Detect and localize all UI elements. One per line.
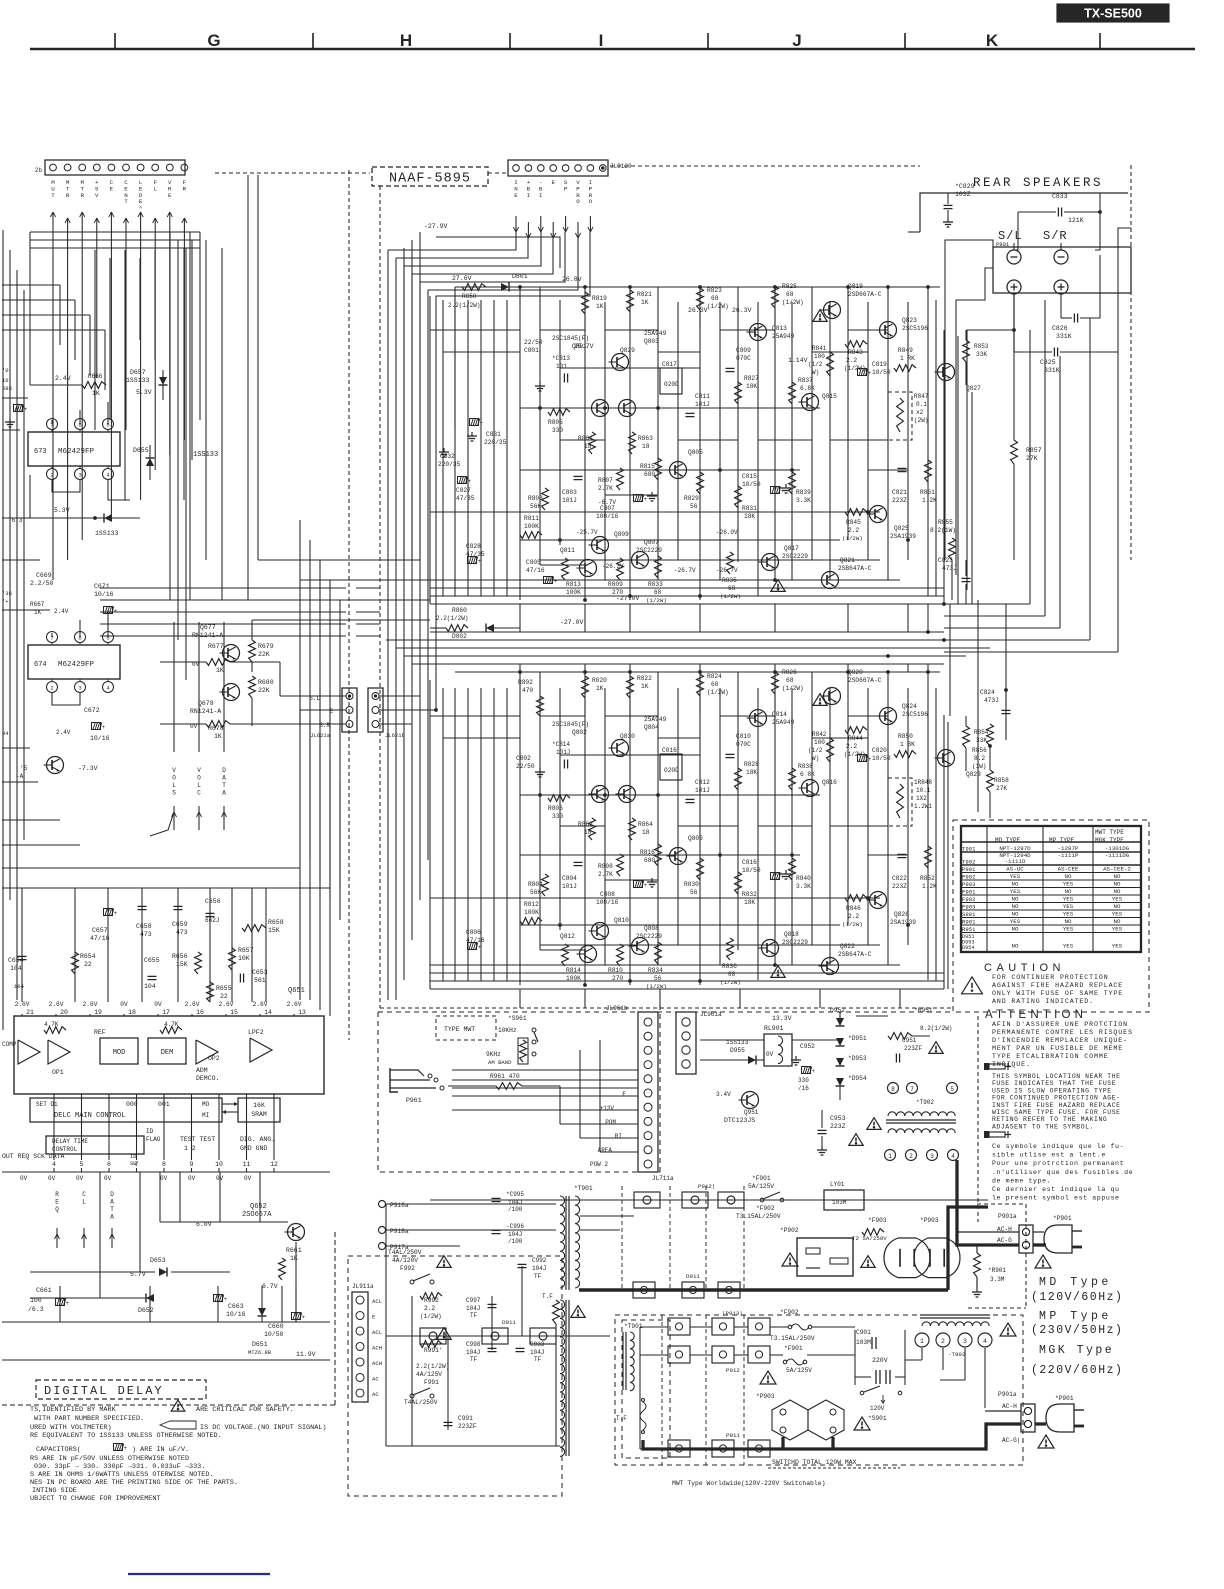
transistor Q820: [821, 669, 882, 705]
svg-text:YES: YES: [1010, 888, 1021, 895]
resistor R858: [987, 746, 1010, 818]
svg-text:Ce dernier est indique la qu: Ce dernier est indique la qu: [992, 1186, 1120, 1193]
svg-text:16K: 16K: [253, 1102, 265, 1109]
fuse box thick1: [633, 1282, 655, 1298]
svg-text:A: A: [110, 1199, 114, 1206]
svg-text:C653: C653: [252, 969, 268, 976]
svg-text:D952: D952: [830, 1007, 845, 1014]
capacitor C816: [742, 859, 791, 881]
wire: [927, 672, 929, 980]
svg-text:R830: R830: [684, 881, 699, 888]
wire: [584, 664, 586, 672]
svg-text:R992: R992: [424, 1297, 439, 1304]
svg-text:Q823: Q823: [902, 317, 917, 324]
label TEST TEST: [180, 1136, 215, 1152]
svg-text:AND RATING INDICATED.: AND RATING INDICATED.: [992, 998, 1094, 1005]
wire: [59, 1286, 61, 1322]
wire: [184, 232, 200, 500]
inductor L901: [824, 1181, 864, 1210]
wire: [21, 1014, 23, 1016]
wire: [757, 302, 759, 596]
wire: [830, 825, 888, 827]
svg-text:-1111P: -1111P: [1058, 852, 1079, 859]
wire: [429, 296, 431, 604]
label 2SC1845(F) Q801: [552, 335, 589, 350]
resistor R829: [684, 472, 703, 510]
svg-text:674: 674: [34, 661, 47, 669]
wire: [491, 1296, 493, 1350]
svg-text:-1111D: -1111D: [1005, 858, 1026, 865]
table row T902: [961, 852, 1141, 866]
wire bus: [430, 1199, 988, 1201]
resistor R843: [844, 341, 867, 372]
transistor Q804: [609, 716, 667, 757]
svg-text:YES: YES: [1063, 911, 1074, 918]
fuse D911c: [530, 1328, 556, 1344]
svg-text:2.6V: 2.6V: [219, 1001, 234, 1008]
wire: [2, 748, 38, 782]
wire: [829, 688, 831, 965]
svg-text:0V: 0V: [244, 1175, 252, 1182]
svg-text:ADM: ADM: [196, 1067, 208, 1074]
svg-text:2.7K: 2.7K: [598, 485, 613, 492]
svg-text:662J: 662J: [205, 917, 219, 924]
svg-text:10/16: 10/16: [94, 591, 114, 598]
svg-text:18: 18: [584, 443, 592, 450]
wire: [520, 854, 560, 856]
label edge: [2, 598, 9, 605]
attention text en: [992, 1087, 1112, 1094]
wire: [223, 622, 225, 752]
wire bus: [356, 587, 380, 589]
wire pin arrow: [109, 212, 114, 230]
label edge: [2, 367, 9, 374]
pin label ACL: [372, 1329, 382, 1336]
wire: [89, 1014, 91, 1016]
pin label E: [622, 1091, 626, 1098]
svg-text:94: 94: [2, 730, 9, 737]
pin label ACH: [372, 1345, 382, 1352]
wire bus: [2, 1171, 330, 1173]
board boundary dashed: [968, 1204, 1026, 1308]
svg-text:5.3V: 5.3V: [136, 389, 152, 396]
board boundary dashed: [610, 165, 920, 167]
resistor R820: [582, 676, 608, 698]
pin label +5V: [95, 179, 99, 199]
label T3.15AL/250V b: [770, 1335, 815, 1342]
svg-text:C672: C672: [84, 707, 100, 714]
resistor R838: [789, 763, 816, 790]
svg-text:R812: R812: [524, 901, 539, 908]
svg-text:R809: R809: [608, 581, 623, 588]
board boundary dashed: [348, 1256, 562, 1496]
wire: [540, 564, 585, 566]
svg-text:1 2: 1 2: [184, 1145, 196, 1152]
wire: [388, 232, 516, 250]
attention text en: [992, 1102, 1121, 1109]
wire: [209, 888, 211, 1002]
note text: [32, 1487, 77, 1495]
capacitor C995: [492, 1191, 525, 1213]
svg-text:AFIN D'ASSURER UNE PROTCTION: AFIN D'ASSURER UNE PROTCTION: [992, 1021, 1128, 1028]
svg-text:+: +: [644, 496, 648, 503]
wire pin arrow: [563, 216, 568, 232]
svg-text:10/50: 10/50: [742, 867, 761, 874]
junction: [846, 285, 849, 288]
svg-text:Q830: Q830: [620, 733, 635, 740]
junction: [790, 468, 793, 471]
svg-text:MWT Type Worldwide(120V-220V S: MWT Type Worldwide(120V-220V Switchable): [672, 1480, 825, 1487]
wire bus: [412, 663, 944, 665]
wire: [658, 351, 700, 353]
svg-text:A: A: [222, 775, 226, 782]
resistor R855: [930, 519, 956, 600]
resistor R816: [640, 844, 661, 866]
svg-text:NPT-1287D: NPT-1287D: [999, 845, 1031, 852]
svg-text:AS-UC: AS-UC: [1006, 866, 1024, 873]
attention text: [992, 1053, 1109, 1060]
opamp COMP: [18, 1040, 40, 1064]
resistor R844: [844, 727, 867, 758]
svg-text:C816: C816: [742, 859, 757, 866]
wire: [584, 672, 586, 985]
pin label RI: [615, 1133, 622, 1140]
plug P903c: [772, 1400, 808, 1440]
svg-text:C827: C827: [456, 487, 471, 494]
svg-text:*T901: *T901: [574, 1185, 593, 1192]
svg-text:R850: R850: [898, 733, 913, 740]
svg-text:47/35: 47/35: [456, 495, 475, 502]
wire: [300, 710, 346, 724]
junction: [698, 979, 701, 982]
junction: [846, 670, 849, 673]
wire: [442, 300, 444, 596]
wire: [273, 1094, 275, 1160]
svg-text:C658: C658: [136, 923, 152, 930]
capacitor C822: [892, 854, 907, 890]
wire bus: [520, 794, 820, 796]
wire: [52, 402, 108, 424]
wire: [185, 248, 187, 680]
wire: [198, 622, 200, 752]
svg-text:(1/2W): (1/2W): [646, 597, 667, 604]
svg-text:1K: 1K: [596, 685, 604, 692]
wire: [21, 888, 23, 1002]
wire: [847, 604, 849, 632]
wire bus: [2, 1321, 330, 1323]
svg-text:S.R: S.R: [319, 722, 330, 729]
svg-text:*C814: *C814: [552, 741, 570, 748]
wire: [30, 1272, 230, 1298]
svg-text:*D954: *D954: [848, 1075, 867, 1082]
wire bus: [356, 599, 380, 601]
wire bus: [944, 603, 1030, 605]
svg-text:GND GND: GND GND: [240, 1145, 267, 1152]
label 5A/125V b: [786, 1367, 812, 1374]
wire bus: [455, 671, 940, 673]
junction: [886, 285, 889, 288]
wire: [427, 290, 429, 860]
wire: [2, 230, 4, 1030]
svg-text:18K: 18K: [744, 899, 755, 906]
svg-text:R803: R803: [528, 495, 543, 502]
ruler label K: [986, 31, 999, 50]
svg-text:T4AL/250V: T4AL/250V: [388, 1249, 422, 1256]
resistor R852: [920, 846, 937, 890]
svg-text:FUSE INDICATES THAT THE FUSE: FUSE INDICATES THAT THE FUSE: [992, 1080, 1116, 1087]
resistor R835: [720, 552, 741, 600]
svg-text:2: 2: [50, 685, 53, 692]
diode D801: [501, 273, 528, 292]
svg-text:TF: TF: [534, 1356, 542, 1363]
label edge: [2, 730, 9, 737]
transistor Q808: [629, 925, 663, 955]
board boundary dashed: [380, 1007, 952, 1009]
ground: [817, 1146, 827, 1155]
svg-text:R827: R827: [744, 375, 759, 382]
wire: [2, 330, 105, 390]
svg-text:1R848: 1R848: [914, 779, 932, 786]
svg-text:C933: C933: [530, 1341, 545, 1348]
fuse D911a: [420, 1328, 446, 1344]
svg-text:CONTROL: CONTROL: [52, 1146, 78, 1153]
net label S.R: [319, 722, 330, 729]
wire: [699, 287, 701, 600]
svg-text:CAUTION: CAUTION: [984, 962, 1065, 974]
capacitor C810: [726, 733, 752, 758]
svg-text:18K: 18K: [744, 513, 755, 520]
svg-text:1SS133: 1SS133: [126, 377, 150, 384]
svg-text:ATTENTION: ATTENTION: [985, 1009, 1087, 1021]
wire: [177, 240, 179, 640]
svg-text:10/16: 10/16: [90, 735, 110, 742]
label P913: [722, 1310, 743, 1317]
resistor R847: [888, 392, 929, 440]
svg-text:P911: P911: [726, 1432, 740, 1439]
svg-text:P901a: P901a: [998, 1391, 1017, 1398]
junction: [942, 602, 945, 605]
svg-text:+: +: [124, 1445, 128, 1452]
svg-text:PERMANENTE CONTRE LES RISQUES: PERMANENTE CONTRE LES RISQUES: [992, 1029, 1133, 1036]
wire: [957, 336, 959, 604]
wire: [454, 287, 456, 430]
wire: [678, 825, 738, 827]
wire: [219, 1172, 221, 1222]
wire: [183, 236, 185, 440]
svg-text:DELC MAIN CONTROL: DELC MAIN CONTROL: [54, 1112, 125, 1120]
terminal 2b: [936, 1333, 950, 1347]
svg-text:D: D: [222, 767, 226, 774]
svg-text:020D: 020D: [664, 381, 679, 388]
svg-text:C997: C997: [466, 1297, 481, 1304]
svg-text:C811: C811: [695, 393, 710, 400]
section title REAR SPEAKERS: [973, 176, 1103, 190]
svg-text:JL911a: JL911a: [352, 1283, 374, 1290]
wire: [53, 1168, 55, 1172]
svg-text:R850: R850: [462, 293, 477, 300]
svg-text:*T902: *T902: [916, 1099, 934, 1106]
svg-text:2.6V: 2.6V: [253, 1001, 268, 1008]
attention text en: [992, 1073, 1121, 1080]
svg-text:ADJASENT TO THE SYMBOL.: ADJASENT TO THE SYMBOL.: [992, 1123, 1094, 1130]
label OUT REQ SCK DATA: [2, 1153, 137, 1167]
transistor Q819: [821, 283, 882, 319]
resistor R991: [420, 1341, 443, 1354]
capacitor C828: [466, 543, 485, 565]
svg-text:104J: 104J: [466, 1305, 480, 1312]
wire: [605, 715, 658, 717]
wire: [81, 1094, 83, 1160]
label 0V: [766, 1051, 774, 1058]
wire bus: [430, 897, 880, 899]
svg-text:68: 68: [786, 291, 794, 298]
svg-text:*C829: *C829: [955, 183, 975, 190]
junction: [718, 468, 721, 471]
wire: [584, 604, 586, 632]
svg-text:10/50: 10/50: [872, 369, 891, 376]
net label REQ: [55, 1191, 60, 1248]
wire: [1014, 243, 1061, 250]
svg-text:Q651: Q651: [288, 987, 305, 995]
junction: [926, 670, 929, 673]
wire: [179, 1172, 181, 1222]
fuse P912b: [682, 1183, 715, 1208]
svg-text:1: 1: [888, 1153, 892, 1160]
wire: [29, 232, 31, 385]
svg-text:6 8K: 6 8K: [800, 771, 815, 778]
label 27.6V: [452, 275, 472, 282]
svg-text:19: 19: [94, 1009, 102, 1016]
svg-text:100K: 100K: [566, 975, 581, 982]
svg-text:YES: YES: [1112, 926, 1123, 933]
svg-text:18: 18: [642, 829, 650, 836]
table column line: [1092, 826, 1094, 952]
svg-text:15: 15: [230, 1009, 238, 1016]
svg-text:/16: /16: [798, 1085, 809, 1092]
svg-text:R828: R828: [744, 761, 759, 768]
svg-text:C824: C824: [980, 689, 995, 696]
resistor R809: [608, 558, 623, 596]
svg-text:-7.3V: -7.3V: [78, 765, 98, 772]
resistor R680: [249, 676, 274, 726]
svg-text:C826: C826: [1052, 325, 1068, 332]
svg-text:220V: 220V: [872, 1357, 888, 1364]
svg-text:Q652: Q652: [250, 1203, 267, 1211]
wire bus: [560, 367, 700, 369]
svg-text:330: 330: [552, 813, 563, 820]
svg-text:11: 11: [243, 1161, 251, 1168]
wire bus: [30, 247, 200, 249]
svg-text:0V: 0V: [188, 1175, 196, 1182]
svg-text:0V: 0V: [120, 1001, 128, 1008]
svg-text:NO: NO: [1012, 903, 1019, 910]
label ID FLAG: [146, 1128, 161, 1143]
svg-text:3: 3: [78, 472, 81, 479]
svg-text:'0: '0: [2, 367, 9, 374]
svg-text:D801: D801: [512, 273, 528, 280]
label edge: [14, 983, 25, 990]
fuse F902b: [788, 1324, 812, 1330]
wire: [403, 248, 405, 560]
svg-text:NO: NO: [1114, 881, 1121, 888]
wire: [519, 672, 521, 985]
wire: [339, 600, 341, 920]
svg-text:C812: C812: [695, 779, 710, 786]
junction: [628, 285, 631, 288]
svg-text:C657: C657: [92, 927, 108, 934]
resistor R862: [578, 818, 595, 840]
wire: [1059, 356, 1061, 628]
svg-text:DIG. ANG.: DIG. ANG.: [240, 1136, 275, 1143]
svg-text:22: 22: [220, 993, 228, 1000]
label 11.9V: [296, 1351, 316, 1358]
svg-text:8: 8: [891, 1086, 895, 1093]
svg-text:60: 60: [711, 681, 719, 688]
svg-text:R826: R826: [782, 669, 797, 676]
wire: [222, 1110, 238, 1114]
svg-text:(1/2: (1/2: [808, 361, 823, 368]
wire: [157, 1014, 159, 1016]
svg-text:7: 7: [135, 1161, 139, 1168]
wire: [539, 287, 541, 565]
fuse P912a: [634, 1192, 660, 1208]
terminal 7: [907, 1083, 918, 1094]
resistor R832: [735, 872, 758, 906]
relay RL901: [764, 1025, 792, 1066]
wire: [519, 604, 521, 632]
connector P917a: [379, 1243, 409, 1252]
wire: [792, 539, 830, 541]
wire pin arrow: [182, 218, 187, 236]
svg-text:R657: R657: [238, 947, 254, 954]
transistor Q801: [589, 400, 609, 417]
transistor Q821: [819, 557, 872, 589]
svg-text:(1/2W): (1/2W): [782, 299, 804, 306]
pin 10: [215, 1161, 223, 1168]
wire: [887, 287, 889, 580]
wire: [720, 329, 775, 331]
box MOD: [100, 1038, 138, 1064]
wire: [299, 520, 301, 724]
svg-text:25A949: 25A949: [772, 719, 795, 726]
pin 5: [80, 1161, 84, 1168]
svg-text:-26.7V: -26.7V: [674, 567, 696, 574]
wire: [99, 1172, 101, 1298]
wire: [957, 1231, 1044, 1233]
svg-text:2.2/50: 2.2/50: [30, 580, 54, 587]
wire bus: [540, 944, 880, 946]
wire: [899, 989, 901, 1008]
junction: [988, 744, 991, 747]
wire: [125, 236, 127, 430]
wire: [67, 236, 69, 560]
terminal 5: [947, 1083, 958, 1094]
attention text: [992, 1045, 1123, 1052]
wire: [887, 672, 889, 965]
attention text: [992, 1029, 1133, 1036]
wire: [600, 1040, 638, 1152]
wire: [540, 715, 585, 717]
svg-text:-26.0V: -26.0V: [716, 529, 738, 536]
resistor R678: [160, 721, 300, 740]
wire: [52, 692, 80, 705]
svg-text:C991: C991: [458, 1415, 473, 1422]
svg-text:R861: R861: [578, 435, 593, 442]
wire: [386, 1204, 556, 1246]
diode D951: [836, 1035, 867, 1046]
svg-text:+: +: [812, 1068, 816, 1075]
wire: [855, 1330, 905, 1385]
